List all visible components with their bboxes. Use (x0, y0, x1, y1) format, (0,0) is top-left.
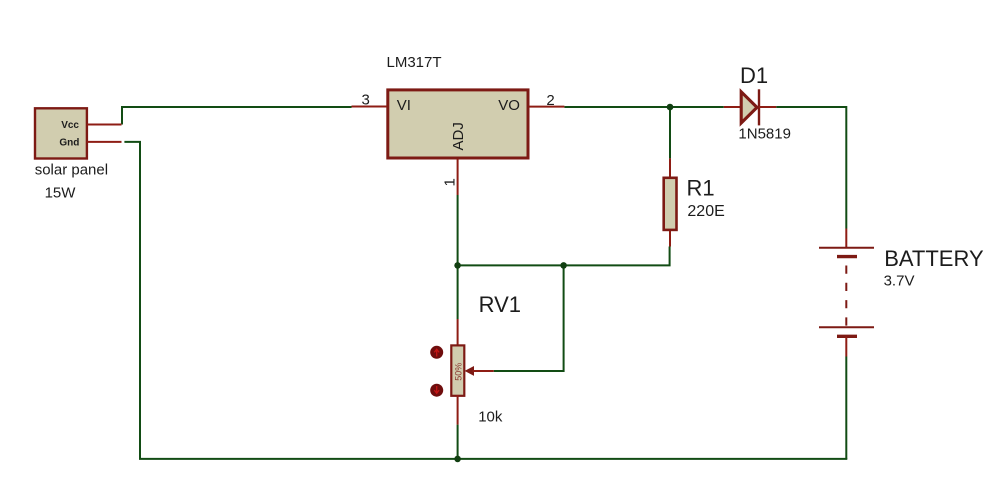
wire mid horizontal from ADJ net to R1 bottom (458, 247, 670, 266)
svg-text:solar panel: solar panel (35, 162, 108, 179)
battery BT1 dashed link (845, 266, 847, 328)
battery BT1 bottom long plate (819, 326, 874, 328)
node junction at R1 top (667, 104, 674, 111)
potentiometer RV1 wiper arrowhead (466, 367, 474, 375)
wire solar panel Gnd down left side (124, 142, 140, 459)
diode D1 anode stub (724, 106, 741, 108)
wire bottom ground rail (139, 458, 847, 460)
potentiometer RV1 top stub (457, 319, 459, 345)
resistor R1 body (664, 178, 677, 230)
svg-text:3: 3 (362, 92, 370, 109)
pin 3 VI stub (352, 106, 388, 108)
pin Gnd of solar panel (87, 141, 122, 143)
pin 1 ADJ stub (457, 159, 459, 195)
regulator U1 LM317T body (388, 90, 528, 158)
potentiometer RV1 down button (430, 384, 443, 397)
svg-text:1N5819: 1N5819 (738, 125, 791, 142)
resistor R1 bottom stub (669, 231, 671, 247)
potentiometer RV1 wiper red lead (473, 370, 494, 372)
svg-text:Vcc: Vcc (61, 120, 79, 131)
diode D1 cathode bar (758, 89, 760, 125)
potentiometer RV1 up button (430, 346, 443, 359)
svg-text:2: 2 (546, 92, 554, 109)
node junction at wiper mid rail (560, 262, 567, 269)
wire from R1 top junction down (669, 107, 671, 158)
svg-text:220E: 220E (687, 203, 724, 220)
wire battery bottom to ground rail (845, 357, 847, 459)
svg-text:VI: VI (397, 97, 411, 114)
svg-text:50%: 50% (453, 363, 463, 381)
wire from LM317 VO to diode anode (564, 106, 723, 108)
node junction at ADJ mid rail (454, 262, 461, 269)
wire top rail from solar panel Vcc to LM317 VI (122, 107, 352, 125)
svg-text:LM317T: LM317T (387, 54, 442, 71)
diode D1 cathode stub (759, 106, 776, 108)
svg-text:10k: 10k (478, 409, 503, 426)
wire from diode cathode to battery top corner (776, 107, 846, 229)
battery BT1 top short plate (837, 255, 857, 258)
pin 2 VO stub (529, 106, 564, 108)
svg-text:1: 1 (441, 178, 458, 186)
diode D1 triangle (741, 92, 757, 123)
wire ADJ vertical to potentiometer (457, 195, 459, 319)
battery BT1 bottom short plate (837, 335, 857, 338)
svg-text:ADJ: ADJ (450, 122, 467, 150)
pin Vcc of solar panel (87, 124, 122, 126)
resistor R1 top stub (669, 158, 671, 177)
potentiometer RV1 bottom stub (457, 395, 459, 425)
svg-text:RV1: RV1 (479, 292, 521, 317)
svg-text:D1: D1 (740, 63, 768, 88)
battery BT1 top long plate (819, 247, 874, 249)
svg-text:BATTERY: BATTERY (884, 246, 984, 271)
svg-text:Gnd: Gnd (59, 138, 79, 149)
battery BT1 bottom stub (845, 337, 847, 357)
node junction at bottom rail (454, 456, 461, 463)
svg-text:15W: 15W (45, 184, 77, 201)
svg-text:R1: R1 (687, 175, 715, 200)
solar panel module (35, 108, 87, 158)
svg-text:3.7V: 3.7V (884, 273, 915, 290)
wire potentiometer bottom to ground rail (457, 425, 459, 459)
svg-text:VO: VO (498, 97, 520, 114)
battery BT1 top stub (845, 229, 847, 248)
potentiometer RV1 body (451, 345, 464, 395)
wire wiper horizontal and up to mid rail (494, 265, 564, 371)
